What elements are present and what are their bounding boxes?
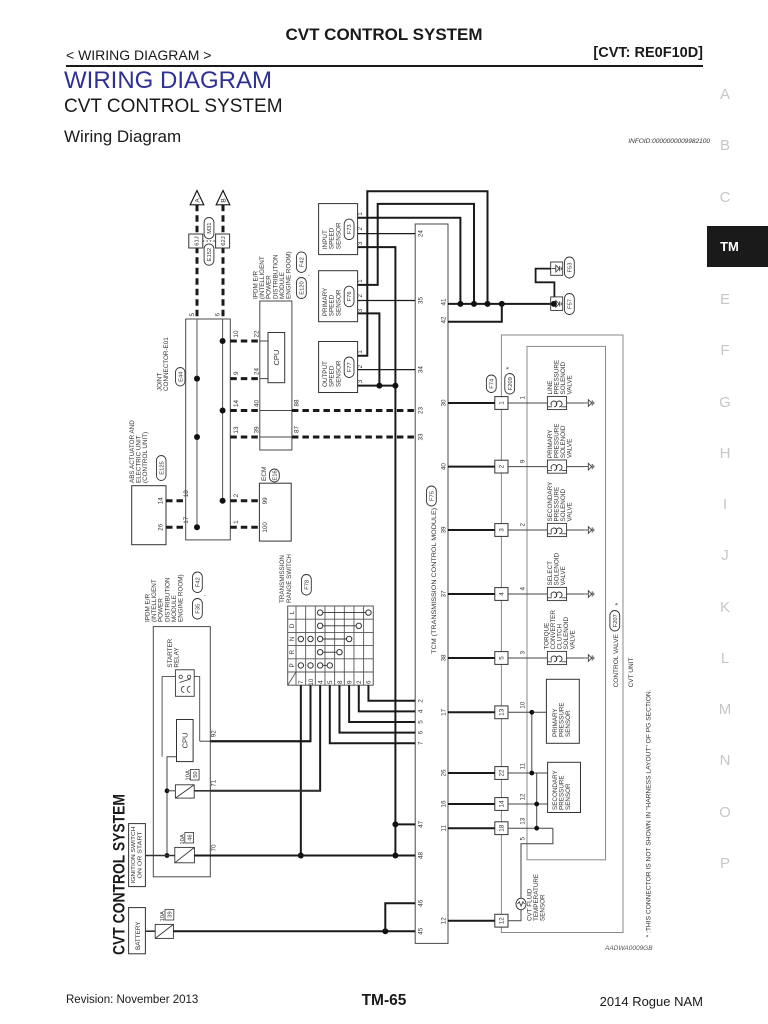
- svg-text:F207: F207: [613, 614, 619, 627]
- svg-text:6: 6: [214, 313, 221, 317]
- svg-text:50: 50: [193, 771, 199, 777]
- svg-text:E152: E152: [207, 248, 213, 262]
- svg-text:35: 35: [417, 297, 424, 305]
- svg-text:F209: F209: [508, 377, 514, 390]
- svg-text:F53: F53: [567, 263, 573, 273]
- svg-text:VALVE: VALVE: [566, 375, 573, 394]
- svg-text:E16: E16: [272, 470, 278, 480]
- svg-text:17: 17: [183, 516, 190, 524]
- svg-text:N: N: [289, 636, 296, 641]
- svg-text:39: 39: [253, 426, 260, 434]
- svg-text:2: 2: [519, 523, 526, 527]
- svg-text:2: 2: [233, 493, 240, 497]
- svg-text:F42: F42: [299, 257, 305, 267]
- svg-text:M31: M31: [207, 223, 213, 234]
- svg-text:BATTERY: BATTERY: [135, 921, 142, 950]
- svg-text:12: 12: [440, 917, 447, 925]
- svg-text:SENSOR: SENSOR: [540, 894, 547, 921]
- svg-text:* :THIS CONNECTOR IS NOT SHOWN: * :THIS CONNECTOR IS NOT SHOWN IN "HARNE…: [646, 689, 653, 937]
- svg-text:AADWA0009GB: AADWA0009GB: [604, 945, 653, 952]
- svg-text:4: 4: [417, 709, 424, 713]
- svg-text:61J: 61J: [194, 236, 200, 245]
- svg-text:18: 18: [499, 824, 506, 832]
- svg-text:CPU: CPU: [272, 350, 281, 366]
- svg-text:SENSOR: SENSOR: [335, 222, 342, 249]
- svg-text:24: 24: [253, 367, 260, 375]
- svg-text:*: *: [615, 603, 622, 606]
- svg-text:IGNITION SWITCH: IGNITION SWITCH: [131, 826, 137, 883]
- svg-text:40: 40: [440, 463, 447, 471]
- svg-text:14: 14: [157, 497, 164, 505]
- svg-text:14: 14: [499, 800, 506, 808]
- svg-text:9: 9: [519, 459, 526, 463]
- svg-text:D: D: [289, 623, 296, 628]
- svg-text:40: 40: [253, 399, 260, 407]
- svg-text:34: 34: [417, 366, 424, 374]
- svg-text:CVT CONTROL SYSTEM: CVT CONTROL SYSTEM: [111, 794, 129, 955]
- svg-text:30: 30: [440, 399, 447, 407]
- svg-text:3: 3: [499, 528, 506, 532]
- svg-text:10: 10: [308, 678, 315, 686]
- svg-text:F77: F77: [347, 362, 353, 372]
- svg-text:2: 2: [357, 364, 364, 368]
- svg-text:RANGE SWITCH: RANGE SWITCH: [286, 554, 293, 603]
- svg-text:47: 47: [417, 820, 424, 828]
- svg-text:23: 23: [417, 407, 424, 415]
- svg-text:SENSOR: SENSOR: [335, 289, 342, 316]
- svg-text:,: ,: [304, 274, 311, 276]
- svg-text:CONTROL VALVE: CONTROL VALVE: [613, 633, 620, 687]
- svg-text:F73: F73: [347, 224, 353, 234]
- svg-text:1: 1: [357, 279, 364, 283]
- svg-text:,: ,: [200, 595, 207, 597]
- svg-text:48: 48: [417, 852, 424, 860]
- svg-text:ON OR START: ON OR START: [138, 831, 144, 879]
- svg-text:CVT UNIT: CVT UNIT: [628, 658, 635, 688]
- svg-text:39: 39: [440, 526, 447, 534]
- svg-text:6: 6: [366, 680, 373, 684]
- svg-text:ENGINE ROOM): ENGINE ROOM): [286, 251, 293, 299]
- svg-text:37: 37: [440, 590, 447, 598]
- svg-text:46: 46: [417, 899, 424, 907]
- svg-text:71: 71: [211, 779, 218, 787]
- svg-text:B: B: [220, 198, 227, 202]
- svg-text:SENSOR: SENSOR: [565, 710, 572, 737]
- svg-text:92: 92: [211, 730, 218, 738]
- svg-text:L: L: [289, 610, 296, 614]
- svg-text:13: 13: [519, 817, 526, 825]
- svg-text:5: 5: [327, 680, 334, 684]
- svg-text:14: 14: [233, 399, 240, 407]
- svg-text:6: 6: [417, 730, 424, 734]
- svg-text:4: 4: [317, 680, 324, 684]
- svg-text:4: 4: [499, 592, 506, 596]
- svg-text:ENGINE ROOM): ENGINE ROOM): [178, 574, 185, 622]
- svg-text:E44: E44: [178, 371, 184, 382]
- svg-text:1: 1: [357, 212, 364, 216]
- svg-text:F78: F78: [304, 580, 310, 590]
- svg-text:2: 2: [356, 680, 363, 684]
- svg-text:A: A: [194, 198, 201, 203]
- svg-text:7: 7: [298, 680, 305, 684]
- svg-text:11: 11: [519, 762, 526, 769]
- svg-text:88: 88: [293, 399, 300, 407]
- svg-text:VALVE: VALVE: [570, 630, 577, 649]
- svg-text:VALVE: VALVE: [566, 439, 573, 458]
- svg-text:62J: 62J: [221, 236, 227, 245]
- svg-text:11: 11: [440, 824, 447, 831]
- svg-text:ECM: ECM: [261, 467, 268, 481]
- svg-text:1: 1: [233, 520, 240, 524]
- svg-text:12: 12: [499, 917, 506, 925]
- svg-text:41: 41: [440, 298, 447, 306]
- svg-text:45: 45: [417, 927, 424, 935]
- svg-text:F42: F42: [195, 577, 201, 587]
- svg-text:1: 1: [357, 350, 364, 354]
- svg-text:F35: F35: [195, 604, 201, 614]
- svg-text:13: 13: [233, 426, 240, 434]
- svg-text:SENSOR: SENSOR: [565, 783, 572, 810]
- svg-text:33: 33: [417, 433, 424, 441]
- svg-text:7: 7: [417, 741, 424, 745]
- svg-text:1: 1: [499, 401, 506, 405]
- svg-text:12: 12: [519, 793, 526, 801]
- svg-text:2: 2: [499, 464, 506, 468]
- svg-text:9: 9: [346, 680, 353, 684]
- svg-text:100: 100: [262, 522, 269, 533]
- svg-text:3: 3: [357, 241, 364, 245]
- svg-text:2: 2: [357, 227, 364, 231]
- svg-text:VALVE: VALVE: [560, 566, 567, 585]
- svg-text:CONNECTOR-E01: CONNECTOR-E01: [163, 337, 170, 391]
- svg-text:1: 1: [519, 396, 526, 400]
- svg-text:3: 3: [357, 308, 364, 312]
- svg-text:F76: F76: [347, 291, 353, 301]
- svg-text:5: 5: [519, 837, 526, 841]
- svg-text:42: 42: [440, 316, 447, 324]
- svg-text:F57: F57: [567, 299, 573, 309]
- svg-text:E120: E120: [299, 281, 305, 295]
- svg-text:13: 13: [499, 708, 506, 716]
- svg-text:8: 8: [337, 680, 344, 684]
- svg-text:5: 5: [417, 720, 424, 724]
- svg-text:E125: E125: [159, 461, 165, 475]
- svg-text:F75: F75: [429, 491, 435, 501]
- svg-text:10: 10: [519, 701, 526, 709]
- svg-text:17: 17: [440, 708, 447, 716]
- svg-text:26: 26: [440, 769, 447, 777]
- svg-text:RELAY: RELAY: [174, 647, 181, 668]
- svg-text:2: 2: [417, 699, 424, 703]
- svg-text:3: 3: [357, 379, 364, 383]
- svg-text:R: R: [289, 649, 296, 654]
- svg-text:39: 39: [168, 911, 174, 917]
- svg-text:46: 46: [188, 834, 194, 840]
- svg-text:4: 4: [519, 587, 526, 591]
- svg-text:5: 5: [189, 313, 196, 317]
- svg-text:22: 22: [253, 330, 260, 338]
- svg-text:24: 24: [417, 230, 424, 238]
- svg-text:*: *: [506, 367, 513, 370]
- svg-text:F74: F74: [489, 378, 495, 389]
- svg-text:P: P: [289, 663, 296, 667]
- svg-text:2: 2: [357, 294, 364, 298]
- svg-text:CPU: CPU: [180, 733, 189, 749]
- svg-text:SENSOR: SENSOR: [335, 360, 342, 387]
- svg-text:3: 3: [519, 651, 526, 655]
- svg-text:87: 87: [293, 425, 300, 433]
- svg-text:18: 18: [183, 490, 190, 498]
- svg-text:9: 9: [233, 371, 240, 375]
- svg-text:22: 22: [499, 769, 506, 777]
- svg-text:(CONTROL UNIT): (CONTROL UNIT): [142, 432, 149, 483]
- svg-text:70: 70: [211, 844, 218, 852]
- svg-text:38: 38: [440, 654, 447, 662]
- svg-text:16: 16: [440, 800, 447, 808]
- svg-text:5: 5: [499, 656, 506, 660]
- svg-text:99: 99: [262, 497, 269, 505]
- svg-text:10: 10: [233, 330, 240, 338]
- svg-text:TCM (TRANSMISSION CONTROL MODU: TCM (TRANSMISSION CONTROL MODULE): [431, 508, 438, 654]
- svg-text:26: 26: [157, 523, 164, 531]
- svg-text:VALVE: VALVE: [566, 502, 573, 521]
